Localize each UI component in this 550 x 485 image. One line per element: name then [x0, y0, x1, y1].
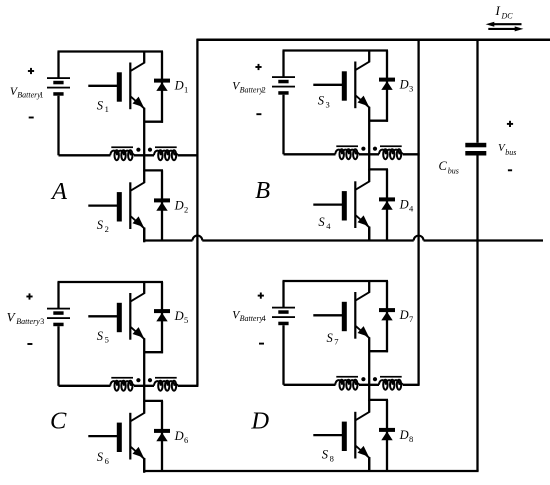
IGBT S3 gate lead — [313, 84, 342, 86]
wire: S5 emitter to D5 anode — [144, 351, 163, 353]
coupling dot winding 1 — [361, 377, 365, 381]
wire: module C top rail — [58, 281, 164, 283]
inductor D2 core bar — [380, 376, 402, 378]
svg-text:1: 1 — [105, 104, 109, 114]
diode D6 — [161, 401, 163, 472]
IGBT S4 emitter vertical — [368, 227, 370, 242]
svg-text:8: 8 — [409, 434, 413, 444]
IGBT S2 body bar — [129, 182, 131, 229]
IGBT S1 body bar — [129, 63, 131, 110]
svg-text:bus: bus — [505, 148, 516, 157]
diode D4 — [386, 169, 388, 240]
label V_bus minus — [508, 169, 512, 171]
svg-text:6: 6 — [105, 456, 109, 466]
svg-text:I: I — [495, 3, 501, 18]
coupling dot winding 2 — [373, 147, 377, 151]
wire: inductor B to riser — [403, 153, 420, 155]
wire: A/B negative rail — [144, 239, 192, 241]
coupling dot winding 1 — [361, 147, 365, 151]
svg-text:3: 3 — [409, 84, 413, 94]
wire: module D top rail — [283, 280, 389, 282]
IGBT S4 gate lead — [313, 203, 342, 205]
wire: module A top rail — [58, 50, 164, 52]
wire: riser node B/D (top bus to inductors of B and D) — [417, 39, 419, 385]
IGBT S1 gate bar — [117, 72, 122, 101]
IGBT S3 collector lead — [368, 50, 370, 63]
IGBT S8 gate bar — [342, 422, 347, 451]
IGBT S6 body bar — [129, 413, 131, 460]
wire: between windings — [134, 154, 154, 156]
IGBT S8 emitter lead with arrow — [356, 446, 370, 458]
wire: S3 emitter to D3 anode — [369, 120, 388, 122]
IGBT S2 gate lead — [88, 204, 117, 206]
inductor D1 core bar — [336, 376, 358, 378]
svg-text:1: 1 — [40, 91, 44, 100]
battery V_Battery4 positive lead — [282, 281, 284, 307]
svg-text:D: D — [399, 198, 409, 212]
wire: phase node down to coupled inductor — [143, 123, 145, 156]
battery V_Battery4 plates — [272, 307, 295, 309]
diode D1 — [161, 52, 163, 123]
battery V_Battery1 plates — [47, 77, 70, 79]
coupling dot winding 2 — [148, 148, 152, 152]
svg-text:4: 4 — [326, 221, 331, 231]
wire: S1 emitter to D1 anode — [144, 121, 163, 123]
label battery plus — [26, 296, 32, 298]
wire: between windings — [359, 153, 379, 155]
wire: battery negative to inductor — [284, 384, 336, 386]
IGBT S8 emitter vertical — [368, 457, 370, 472]
IGBT S7 gate lead — [313, 314, 342, 316]
svg-text:2: 2 — [262, 85, 266, 94]
IGBT S2 emitter vertical — [143, 228, 145, 243]
IGBT S6 gate lead — [88, 435, 117, 437]
battery V_Battery2 plates — [272, 76, 295, 78]
IGBT S8 body bar — [354, 412, 356, 459]
wire: S7 emitter to D7 anode — [369, 350, 388, 352]
wire: battery negative to inductor — [284, 153, 336, 155]
wire: S2 emitter to bottom rail — [143, 228, 145, 242]
wire: S8 collector to D8 cathode — [369, 399, 388, 401]
IGBT S7 body bar — [354, 292, 356, 339]
svg-text:S: S — [97, 450, 104, 464]
wire: battery negative to inductor — [59, 385, 111, 387]
IGBT S6 gate bar — [117, 423, 122, 452]
svg-text:7: 7 — [409, 314, 413, 324]
label V_bus plus — [507, 123, 513, 125]
svg-text:3: 3 — [326, 99, 330, 109]
svg-text:D: D — [399, 428, 409, 442]
IGBT S7 collector lead — [368, 280, 370, 293]
IGBT S6 emitter lead with arrow — [131, 447, 145, 459]
IGBT S6 collector lead — [143, 401, 145, 414]
wire: center leg inductor to S2 collector — [143, 155, 145, 171]
IGBT S2 gate bar — [117, 192, 122, 221]
inductor A2 core bar — [155, 146, 177, 148]
battery V_Battery1 negative lead — [57, 96, 59, 156]
svg-text:A: A — [50, 178, 68, 205]
svg-text:C: C — [439, 159, 448, 173]
wire: S6 collector to D6 cathode — [144, 400, 163, 402]
wire: C/D negative bottom rail — [144, 470, 478, 472]
IGBT S5 collector lead — [143, 281, 145, 294]
IGBT S3 body bar — [354, 62, 356, 109]
wire: center leg inductor to S6 collector — [143, 386, 145, 402]
label battery plus — [28, 70, 34, 72]
IGBT S1 collector lead — [143, 51, 145, 64]
wire: S2 collector to D2 cathode — [144, 169, 163, 171]
IGBT S5 gate lead — [88, 315, 117, 317]
IGBT S4 collector lead — [368, 169, 370, 182]
svg-text:S: S — [97, 98, 104, 112]
svg-text:4: 4 — [262, 314, 266, 323]
IGBT S1 gate lead — [88, 85, 117, 87]
current arrow I_DC — [491, 23, 522, 25]
battery V_Battery1 positive lead — [57, 52, 59, 78]
svg-text:Battery: Battery — [16, 317, 40, 326]
svg-text:bus: bus — [448, 166, 459, 175]
svg-text:S: S — [97, 218, 104, 232]
battery V_Battery2 positive lead — [282, 51, 284, 77]
inductor B1 core bar — [336, 145, 358, 147]
battery V_Battery3 plates — [47, 308, 70, 310]
label battery minus — [27, 343, 32, 345]
svg-text:Battery: Battery — [17, 91, 41, 100]
inductor C2 core bar — [155, 377, 177, 379]
wire: inductor A to riser — [178, 154, 199, 156]
svg-text:Battery: Battery — [240, 314, 264, 323]
coupling dot winding 1 — [136, 378, 140, 382]
inductor B2 winding — [379, 150, 403, 155]
IGBT S8 gate lead — [313, 434, 342, 436]
svg-text:S: S — [327, 331, 334, 345]
capacitor C_bus — [476, 39, 478, 143]
wire: between windings — [134, 385, 154, 387]
wire: S6 emitter to bottom rail — [143, 458, 145, 472]
svg-text:D: D — [399, 78, 409, 92]
battery V_Battery3 positive lead — [57, 282, 59, 308]
svg-text:7: 7 — [334, 337, 338, 347]
coupling dot winding 2 — [373, 377, 377, 381]
battery V_Battery2 negative lead — [282, 95, 284, 155]
inductor A1 winding — [110, 151, 134, 156]
wire: between windings — [359, 384, 379, 386]
svg-text:S: S — [318, 215, 325, 229]
diode D2 — [161, 170, 163, 241]
inductor D1 winding — [335, 380, 359, 385]
svg-text:D: D — [174, 429, 184, 443]
IGBT S1 emitter lead with arrow — [131, 96, 145, 108]
svg-text:S: S — [318, 94, 325, 108]
inductor A2 winding — [154, 151, 178, 156]
IGBT S2 collector lead — [143, 170, 145, 183]
wire: S4 emitter to bottom rail — [368, 227, 370, 241]
IGBT S5 emitter vertical — [143, 338, 145, 353]
wire: positive DC top bus — [197, 38, 550, 41]
diode D3 — [386, 51, 388, 122]
coupling dot winding 2 — [148, 378, 152, 382]
IGBT S7 emitter vertical — [368, 337, 370, 352]
IGBT S5 emitter lead with arrow — [131, 327, 145, 339]
svg-text:D: D — [250, 407, 269, 434]
coupling dot winding 1 — [136, 148, 140, 152]
wire crossover bump at riser A/C — [193, 236, 203, 241]
wire: phase node down to coupled inductor — [368, 122, 370, 155]
IGBT S4 emitter lead with arrow — [356, 215, 370, 227]
label battery minus — [259, 343, 264, 345]
wire crossover bump at riser B/D — [414, 236, 424, 241]
svg-text:C: C — [50, 408, 67, 435]
battery V_Battery4 negative lead — [282, 325, 284, 385]
wire: inductor D to riser — [403, 384, 420, 386]
IGBT S5 body bar — [129, 293, 131, 340]
wire: phase node down to coupled inductor — [368, 352, 370, 385]
label battery minus — [29, 117, 34, 119]
svg-text:D: D — [174, 79, 184, 93]
IGBT S8 collector lead — [368, 400, 370, 413]
svg-text:8: 8 — [330, 454, 334, 464]
inductor B2 core bar — [380, 145, 402, 147]
svg-text:D: D — [399, 308, 409, 322]
wire: center leg inductor to S4 collector — [368, 154, 370, 170]
svg-text:2: 2 — [184, 204, 188, 214]
svg-text:5: 5 — [105, 335, 109, 345]
svg-text:D: D — [174, 199, 184, 213]
wire: riser node A/C (top bus to inductors of A and C) — [196, 39, 198, 386]
label battery plus — [255, 66, 261, 68]
svg-text:D: D — [174, 309, 184, 323]
inductor C2 winding — [154, 381, 178, 386]
svg-text:1: 1 — [184, 85, 188, 95]
inductor C1 core bar — [111, 377, 133, 379]
svg-text:6: 6 — [184, 435, 188, 445]
battery V_Battery3 negative lead — [57, 326, 59, 386]
diode D7 — [386, 281, 388, 352]
IGBT S3 emitter lead with arrow — [356, 95, 370, 107]
IGBT S3 gate bar — [342, 71, 347, 100]
svg-text:5: 5 — [184, 315, 188, 325]
diode D5 — [161, 282, 163, 353]
diode D8 — [386, 400, 388, 471]
svg-text:S: S — [97, 329, 104, 343]
wire: S8 emitter to bottom rail — [368, 457, 370, 471]
wire: S4 collector to D4 cathode — [369, 168, 388, 170]
svg-text:3: 3 — [40, 317, 44, 326]
label battery plus — [258, 295, 264, 297]
IGBT S4 gate bar — [342, 191, 347, 220]
IGBT S7 emitter lead with arrow — [356, 326, 370, 338]
wire: module B top rail — [283, 49, 389, 51]
svg-text:B: B — [255, 177, 270, 204]
IGBT S2 emitter lead with arrow — [131, 216, 145, 228]
IGBT S1 emitter vertical — [143, 108, 145, 123]
inductor D2 winding — [379, 380, 403, 385]
svg-text:S: S — [322, 448, 329, 462]
wire: inductor C to riser — [178, 385, 199, 387]
IGBT S7 gate bar — [342, 302, 347, 331]
wire: center leg inductor to S8 collector — [368, 385, 370, 401]
IGBT S4 body bar — [354, 181, 356, 228]
svg-text:2: 2 — [105, 224, 109, 234]
svg-text:DC: DC — [501, 12, 514, 21]
IGBT S6 emitter vertical — [143, 458, 145, 473]
inductor B1 winding — [335, 150, 359, 155]
label battery minus — [256, 113, 261, 115]
svg-text:Battery: Battery — [240, 85, 264, 94]
inductor A1 core bar — [111, 146, 133, 148]
wire: phase node down to coupled inductor — [143, 353, 145, 386]
inductor C1 winding — [110, 381, 134, 386]
wire: battery negative to inductor — [59, 154, 111, 156]
IGBT S5 gate bar — [117, 303, 122, 332]
IGBT S3 emitter vertical — [368, 107, 370, 122]
